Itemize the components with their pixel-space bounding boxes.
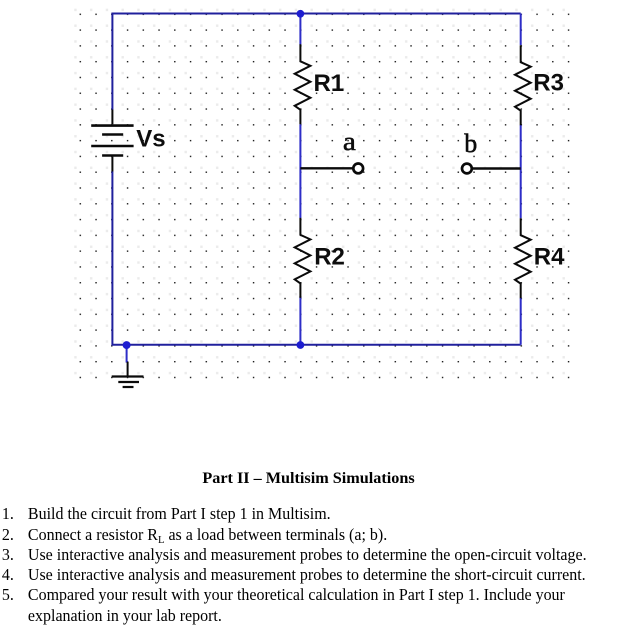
- svg-text:R4: R4: [534, 244, 565, 271]
- svg-text:b: b: [464, 129, 477, 158]
- svg-text:R3: R3: [533, 70, 564, 97]
- svg-text:R1: R1: [314, 70, 345, 97]
- svg-text:Vs: Vs: [136, 125, 165, 152]
- svg-text:R2: R2: [314, 244, 345, 271]
- svg-text:a: a: [343, 127, 357, 156]
